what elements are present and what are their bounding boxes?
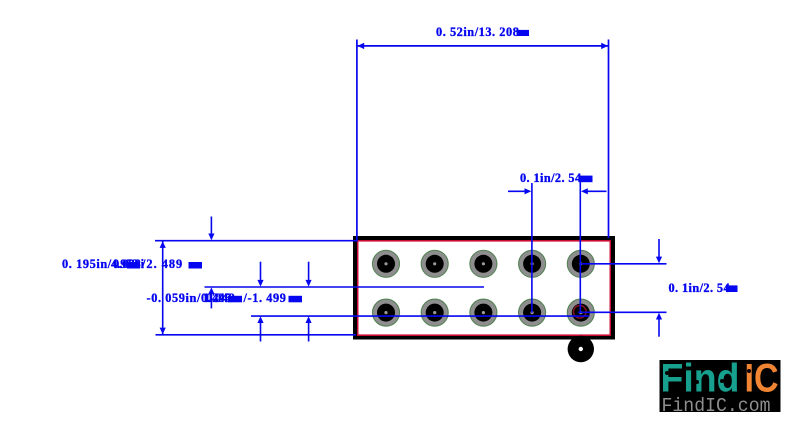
arrowhead up at top of vertical dimension: [160, 241, 166, 248]
arrowhead down at body-top leader x=211.4: [208, 234, 214, 241]
arrowhead pointing left at col5: [581, 188, 588, 194]
svg-text:/-1. 499: /-1. 499: [243, 291, 287, 305]
arrowhead up at centerline x=211.4: [208, 287, 214, 294]
leader line row 2: [578, 311, 667, 313]
arrowhead up at offset leader x=308.6: [306, 316, 312, 323]
dimension stub right: [587, 190, 607, 192]
svg-text:0. 1in/2. 54: 0. 1in/2. 54: [669, 281, 731, 295]
svg-text:0. 195in/: 0. 195in/: [62, 257, 112, 271]
extension line pad col 5: [579, 178, 581, 312]
pad 4: [519, 250, 546, 277]
label 0.1in/2.54mm (right): [669, 281, 738, 295]
dimension: row pitch 0.1in/2.54mm (right side): [578, 239, 667, 337]
arrowhead pointing up at row2 leader: [656, 313, 662, 320]
arrow stub row1 to centerline at x=308.6: [308, 262, 310, 281]
arrowhead up at offset leader x=260.5: [257, 316, 263, 323]
label -0.059in/0.049in (overlapped): [147, 291, 236, 305]
leader line at body top edge: [155, 240, 357, 242]
vertical dimension line x=162.7: [162, 241, 164, 335]
mounting hole: [568, 336, 594, 362]
arrowhead pointing right at col4: [525, 188, 532, 194]
arrow stub above row1: [658, 239, 660, 257]
dimension: pad pitch 0.1in/2.54mm (top right): [508, 178, 607, 313]
component outline (black body rectangle): [353, 236, 615, 340]
arrowhead right of top dimension: [601, 43, 608, 49]
body interior: [359, 242, 610, 335]
arrow stub below offset leader at x=308.6: [308, 323, 310, 342]
label 0.1in/2.54mm (top): [520, 171, 593, 185]
label 0.195in/4.953mm (overlapped): [62, 257, 145, 271]
courtyard (red inner rectangle): [357, 240, 611, 336]
svg-text:IC: IC: [745, 357, 779, 401]
arrowhead pointing down at row1 leader: [656, 257, 662, 264]
arrowhead down at centerline x=308.6: [306, 280, 312, 287]
svg-text:0. 52in/13. 208: 0. 52in/13. 208: [436, 25, 519, 39]
svg-text:FindIC.com: FindIC.com: [662, 395, 771, 417]
pad 8: [470, 299, 497, 326]
arrowhead down at bottom of vertical dimension: [160, 328, 166, 335]
extension line right (x=608.5): [608, 40, 610, 239]
pad 5: [567, 250, 594, 277]
extension line left (x=356.9): [356, 40, 358, 242]
leader line at offset -1.499mm: [251, 315, 590, 317]
arrow stub above body-top leader at x=211.4: [210, 217, 212, 235]
arrowhead left of top dimension: [357, 43, 364, 49]
leader line at body bottom edge: [156, 334, 357, 336]
leader line at row centerline: [205, 286, 485, 288]
pad 3: [470, 250, 497, 277]
label 1.245mm (overlapped): [203, 291, 242, 305]
pad 10 (pin-1 red marker ring): [567, 299, 594, 326]
svg-text:Find: Find: [661, 357, 740, 401]
arrow stub below centerline at x=211.4: [210, 294, 212, 309]
label 0.098in/2.489mm (overlapped): [141, 257, 202, 271]
dimension: body height 0.195in/4.953mm (left): [155, 217, 590, 342]
FindIC logo: [660, 357, 781, 418]
svg-text:0. 1in/2. 54: 0. 1in/2. 54: [520, 171, 582, 185]
dimension: overall width 0.52in/13.208mm: [357, 40, 609, 242]
extension line pad col 4: [531, 183, 533, 313]
dimension stub left: [508, 190, 525, 192]
arrow stub below row2: [658, 319, 660, 337]
arrow stub row1 to centerline at x=260.5: [260, 262, 262, 281]
dimension line top: [357, 45, 609, 47]
pad 7: [421, 299, 448, 326]
pad 9: [519, 299, 546, 326]
arrowhead down at centerline x=260.5: [257, 280, 263, 287]
label 0.52in/13.208mm: [436, 25, 529, 39]
label /-1.499mm (overlapped): [243, 291, 303, 305]
pad 1: [372, 250, 399, 277]
svg-text:049: 049: [206, 291, 224, 305]
arrow stub below offset leader at x=260.5: [260, 323, 262, 342]
pad 6: [372, 299, 399, 326]
leader line row 1: [581, 263, 667, 265]
pad 2: [421, 250, 448, 277]
svg-text:/2. 489: /2. 489: [141, 257, 183, 271]
